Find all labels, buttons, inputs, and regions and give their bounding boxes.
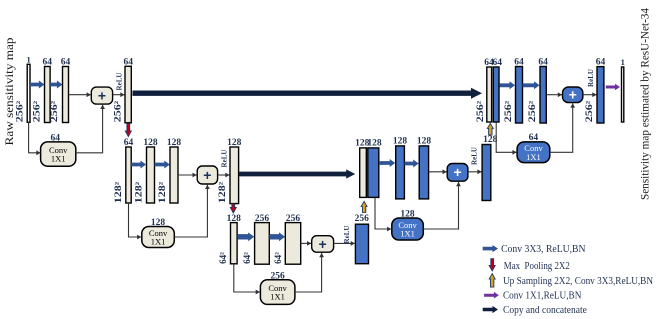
- feature bar 128 row2 b: [170, 147, 178, 203]
- svg-text:256: 256: [286, 214, 301, 224]
- wire concat pair down to conv1x1 decoder row1: [496, 122, 516, 155]
- conv arrow decoder row1 a: [500, 81, 516, 89]
- svg-text:256²: 256²: [112, 100, 122, 122]
- wire row3 bar to plus: [301, 241, 312, 246]
- conv1x1 box decoder row1 (blue, 64): [517, 142, 550, 163]
- label 256 above conv1x1 row3: [270, 271, 285, 281]
- concatenated copy bar 128 decoder row2 (cream): [360, 148, 367, 198]
- svg-text:Conv 1X1,ReLU,BN: Conv 1X1,ReLU,BN: [503, 291, 582, 302]
- label 128^2 relu row2: [217, 181, 227, 203]
- conv1x1 box row3 (256): [260, 280, 295, 305]
- label 128 above conv1x1 row2: [151, 218, 166, 228]
- svg-text:128: 128: [400, 209, 415, 219]
- svg-text:128: 128: [143, 138, 158, 148]
- feature bar 128 decoder row2 a (blue): [396, 146, 405, 199]
- label 256^2 decoder row1 a: [503, 100, 513, 122]
- svg-text:ReLU: ReLU: [220, 150, 228, 168]
- svg-text:256²: 256²: [32, 100, 42, 122]
- svg-text:256: 256: [355, 214, 370, 224]
- svg-text:1: 1: [621, 57, 625, 67]
- feature bar 64 row1 b: [63, 67, 69, 123]
- conv1x1 box row1 (64): [41, 142, 76, 166]
- svg-text:64: 64: [50, 133, 60, 143]
- svg-text:64: 64: [124, 138, 134, 148]
- label 128^2 row2 c: [157, 181, 167, 203]
- bottleneck relu bar 256 (blue): [355, 224, 368, 264]
- label 64 decoder row1 a: [514, 57, 524, 67]
- svg-text:64²: 64²: [273, 252, 283, 264]
- label sensitivity map estimated by ResU-Net-34 (right axis): [640, 8, 652, 200]
- label 128 relu bar row2: [227, 138, 242, 148]
- residual add junction row3 (+): [312, 236, 334, 253]
- conv arrow row3 b: [270, 232, 286, 241]
- label 128 row2 a: [143, 138, 158, 148]
- feature bar 256 row3 b: [285, 223, 300, 265]
- wire row1 bar to plus: [69, 92, 91, 97]
- svg-text:1: 1: [26, 55, 30, 65]
- wire plus to relu bar row2: [218, 173, 230, 178]
- legend up sampling arrow: [489, 274, 495, 288]
- max pooling arrow row2 to row3: [230, 204, 236, 213]
- svg-text:128: 128: [227, 138, 242, 148]
- conv arrow row2 a: [131, 161, 146, 169]
- wire row2 bar to plus: [178, 173, 197, 178]
- svg-text:256: 256: [270, 271, 285, 281]
- feature bar 64 row2: [126, 147, 131, 203]
- label 256^2 decoder row1 b: [527, 100, 537, 122]
- legend max pooling arrow: [489, 259, 495, 271]
- feature bar 128 row3: [231, 223, 238, 264]
- label 64 row1 b: [61, 57, 71, 67]
- svg-text:ReLU: ReLU: [471, 147, 479, 165]
- conv arrow row1: [50, 81, 62, 89]
- label ReLU decoder row1: [587, 69, 595, 87]
- concatenated upsampled bar 64 decoder row1 (blue): [493, 67, 499, 122]
- label ReLU row1: [116, 73, 124, 91]
- label 256^2 row1 b: [49, 100, 59, 122]
- wire bar64 down to conv1x1 row2: [129, 203, 142, 239]
- svg-text:64: 64: [61, 57, 71, 67]
- wire conv1x1 row2 to plus junction: [174, 185, 210, 237]
- svg-text:128: 128: [167, 138, 182, 148]
- label 64^2 row3 c: [273, 252, 283, 264]
- max pooling arrow row1 to row2: [125, 124, 131, 137]
- feature bar 128 row2 a: [147, 147, 155, 203]
- svg-text:128: 128: [227, 214, 242, 224]
- svg-text:+: +: [454, 164, 462, 180]
- svg-text:64²: 64²: [218, 252, 228, 264]
- svg-text:+: +: [203, 167, 211, 183]
- label 64 relu bar row1: [123, 57, 133, 67]
- svg-text:256²: 256²: [527, 100, 537, 122]
- svg-text:Up Sampling 2X2, Conv 3X3,ReLU: Up Sampling 2X2, Conv 3X3,ReLU,BN: [503, 276, 653, 287]
- residual add junction decoder row1 (+): [563, 87, 583, 103]
- svg-text:64: 64: [538, 57, 548, 67]
- svg-text:64²: 64²: [242, 252, 252, 264]
- svg-text:+: +: [319, 236, 327, 252]
- relu output bar 128 row2: [230, 147, 239, 204]
- svg-text:256²: 256²: [584, 100, 594, 122]
- wire conv1x1 decoder row2 to plus junction: [423, 182, 461, 229]
- conv arrow row3 a: [237, 232, 254, 241]
- label 128 concat cream decoder row2: [355, 139, 370, 149]
- svg-text:1X1: 1X1: [270, 292, 285, 302]
- svg-text:256²: 256²: [475, 100, 485, 122]
- feature bar 256 row3 a: [255, 223, 270, 265]
- svg-text:Max Pooling 2X2: Max Pooling 2X2: [504, 261, 570, 272]
- svg-text:64: 64: [43, 57, 53, 67]
- label 128^2 row2 a: [113, 181, 123, 203]
- svg-text:64: 64: [492, 58, 502, 68]
- wire plus to bottleneck relu bar: [334, 241, 355, 246]
- label 128 row2 b: [167, 138, 182, 148]
- concatenated upsampled bar 128 decoder row2 (blue): [368, 148, 379, 198]
- svg-text:128: 128: [417, 137, 432, 147]
- feature bar 128 decoder row2 b (blue): [419, 146, 428, 199]
- svg-text:256²: 256²: [14, 100, 24, 122]
- svg-text:128: 128: [367, 139, 382, 149]
- svg-text:Copy and concatenate: Copy and concatenate: [503, 305, 587, 316]
- feature bar 64 decoder row1 b (blue): [540, 67, 546, 124]
- label 64 relu decoder row1: [596, 57, 606, 67]
- svg-text:ReLU: ReLU: [116, 73, 124, 91]
- svg-text:128²: 128²: [217, 181, 227, 203]
- svg-text:256²: 256²: [503, 100, 513, 122]
- conv1x1 arrow to output (purple): [606, 84, 620, 91]
- label ReLU bottleneck: [343, 226, 351, 244]
- label 1 above input bar: [26, 55, 30, 65]
- residual add junction row1 (+): [91, 87, 112, 104]
- svg-text:Sensitivity map estimated by R: Sensitivity map estimated by ResU-Net-34: [640, 8, 652, 200]
- legend copy text: [503, 305, 587, 316]
- svg-text:+: +: [569, 87, 577, 103]
- wire plus to relu bar decoder row1: [583, 92, 597, 97]
- legend conv3x3 text: [501, 244, 586, 255]
- label 256 bottleneck: [355, 214, 370, 224]
- label 256^2 input bar: [14, 100, 24, 122]
- legend conv1x1 arrow: [484, 292, 499, 299]
- label 1 output bar: [621, 57, 625, 67]
- svg-text:128²: 128²: [113, 181, 123, 203]
- label 128 decoder row2 a: [393, 137, 408, 147]
- svg-text:Raw sensitivity map: Raw sensitivity map: [2, 38, 16, 146]
- label 128^2 row2 b: [133, 181, 143, 203]
- label 64 row2: [124, 138, 134, 148]
- conv arrow decoder row2 b: [404, 160, 418, 168]
- feature bar 64 row1 a: [45, 67, 51, 123]
- label 128 above conv1x1 decoder row2: [400, 209, 415, 219]
- svg-text:256: 256: [255, 214, 270, 224]
- output bar 1: [622, 67, 624, 122]
- conv arrow decoder row1 b: [523, 81, 540, 89]
- conv arrow row2 b: [155, 161, 170, 169]
- relu output bar 64 row1: [125, 66, 131, 123]
- label 64^2 row3 b: [242, 252, 252, 264]
- svg-text:1X1: 1X1: [400, 229, 415, 239]
- feature bar 64 decoder row1 a (blue): [516, 67, 523, 124]
- label 128 decoder row2 b: [417, 137, 432, 147]
- label 64 above conv1x1 row1: [50, 133, 60, 143]
- wire conv1x1 row1 to plus junction: [76, 105, 105, 153]
- wire decoder row2 bar to plus: [429, 169, 447, 174]
- wire concat pair down to conv1x1 decoder row2: [375, 198, 391, 232]
- label 64^2 row3 a: [218, 252, 228, 264]
- svg-text:ReLU: ReLU: [587, 69, 595, 87]
- label 128 relu decoder row2: [483, 135, 498, 145]
- label 64 concat blue decoder row1: [492, 58, 502, 68]
- svg-text:64: 64: [529, 133, 539, 143]
- label 128 row3: [227, 214, 242, 224]
- label 256 row3 a: [255, 214, 270, 224]
- svg-text:ReLU: ReLU: [343, 226, 351, 244]
- svg-text:Conv 3X3, ReLU,BN: Conv 3X3, ReLU,BN: [501, 244, 586, 255]
- label 64 row1 a: [43, 57, 53, 67]
- svg-text:+: +: [98, 88, 106, 104]
- svg-text:64: 64: [514, 57, 524, 67]
- label 64 decoder row1 b: [538, 57, 548, 67]
- copy and concatenate arrow row2: [239, 169, 355, 178]
- label 64 concat cream decoder row1: [484, 58, 494, 68]
- wire conv1x1 row3 to plus junction: [295, 253, 324, 292]
- wire conv1x1 decoder row1 to plus junction: [550, 103, 575, 152]
- svg-text:128²: 128²: [157, 181, 167, 203]
- conv1x1 box row2 (128): [142, 227, 175, 248]
- label ReLU row2: [220, 150, 228, 168]
- concatenated copy bar 64 decoder row1 (cream): [487, 67, 492, 122]
- up sampling arrow row3 to decoder row2: [361, 201, 367, 212]
- svg-text:128: 128: [151, 218, 166, 228]
- svg-text:64: 64: [596, 57, 606, 67]
- svg-text:128: 128: [393, 137, 408, 147]
- svg-text:1X1: 1X1: [151, 237, 166, 247]
- input bar 1 (256^2): [27, 64, 30, 122]
- label raw sensitivity map (left axis): [2, 38, 16, 146]
- wire bar128 down to conv1x1 row3: [234, 264, 260, 295]
- legend up sampling text: [503, 276, 653, 287]
- svg-text:256²: 256²: [49, 100, 59, 122]
- label ReLU decoder row2: [471, 147, 479, 165]
- legend conv1x1 text: [503, 291, 582, 302]
- label 256^2 row1 a: [32, 100, 42, 122]
- svg-text:128²: 128²: [133, 181, 143, 203]
- svg-text:128: 128: [483, 135, 498, 145]
- relu output bar 128 decoder row2 (blue): [482, 145, 491, 201]
- residual add junction decoder row2 (+): [447, 164, 468, 182]
- up sampling arrow decoder row2 to decoder row1: [487, 123, 493, 135]
- wire plus to relu bar row1: [113, 92, 125, 97]
- wire plus to relu bar decoder row2: [468, 169, 482, 174]
- label 256^2 relu decoder row1: [584, 100, 594, 122]
- wire input bar down to conv1x1 row1: [29, 122, 41, 155]
- legend copy arrow: [483, 306, 498, 313]
- conv arrow decoder row2 a: [380, 159, 396, 167]
- conv arrow input to conv1: [30, 81, 44, 89]
- legend conv3x3 arrow: [483, 245, 498, 252]
- label 128 concat blue decoder row2: [367, 139, 382, 149]
- label 256^2 relu bar row1: [112, 100, 122, 122]
- label 64 above conv1x1 decoder row1: [529, 133, 539, 143]
- label 256^2 concat decoder row1: [475, 100, 485, 122]
- copy and concatenate arrow row1: [133, 88, 483, 99]
- conv1x1 box decoder row2 (blue, 128): [392, 218, 424, 240]
- label 256 row3 b: [286, 214, 301, 224]
- wire decoder row1 bar to plus: [546, 92, 562, 97]
- residual add junction row2 (+): [197, 166, 217, 184]
- relu output bar 64 decoder row1 (blue): [597, 67, 604, 123]
- svg-text:64: 64: [123, 57, 133, 67]
- svg-text:1X1: 1X1: [526, 152, 541, 162]
- svg-text:1X1: 1X1: [51, 154, 66, 164]
- legend max pooling text: [504, 261, 570, 272]
